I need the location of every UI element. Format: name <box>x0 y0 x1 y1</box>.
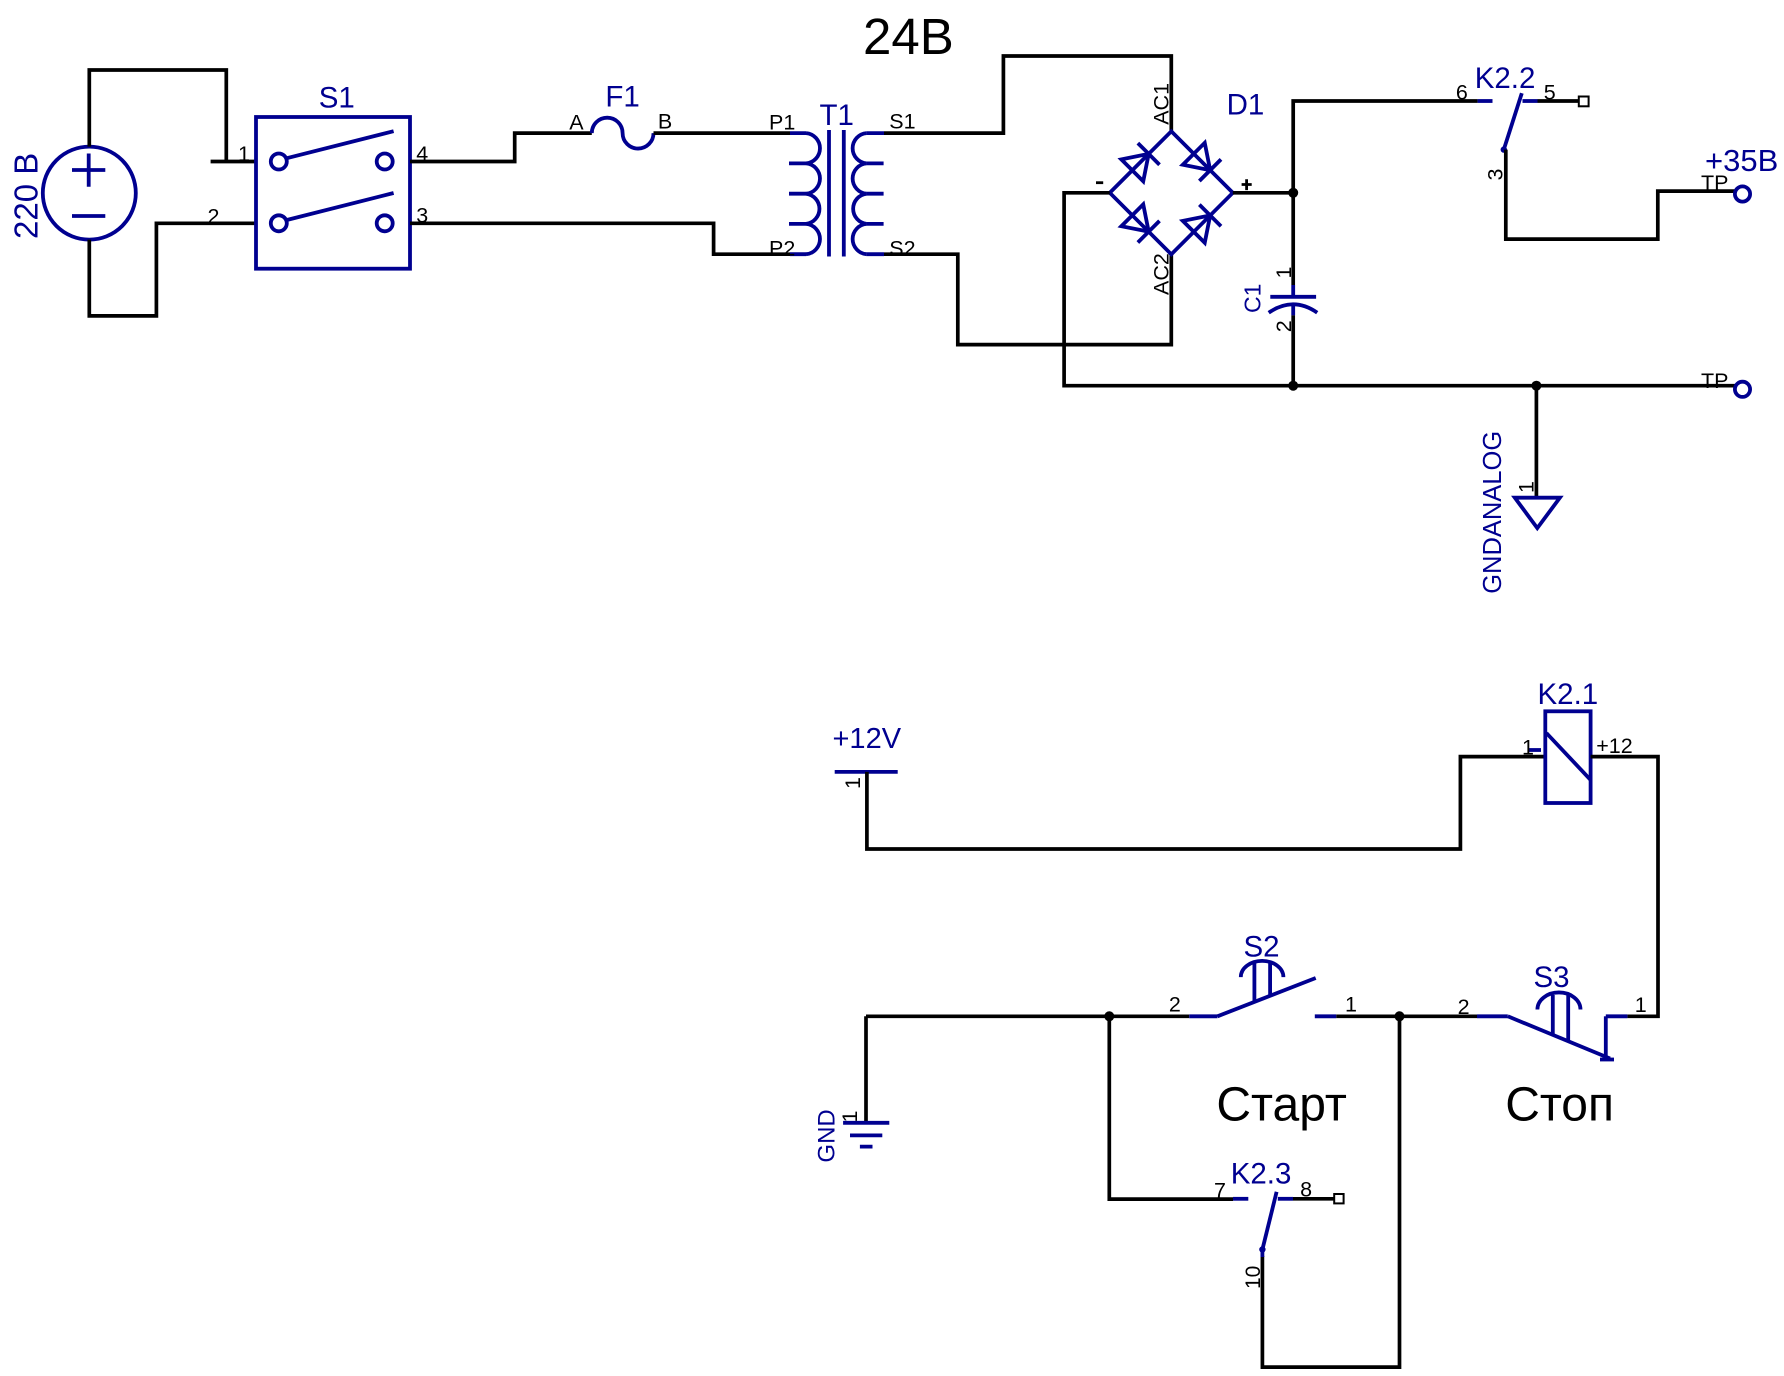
svg-text:S2: S2 <box>1243 931 1279 964</box>
wire C1 node up to K2.2 pin 6 <box>1293 101 1477 193</box>
bottom rail to TP <box>1293 384 1735 388</box>
svg-text:Стоп: Стоп <box>1505 1078 1614 1131</box>
diode D1d bottom-right <box>1183 205 1221 243</box>
wire GND junction down to K2.3 pin 7 <box>1109 1016 1233 1199</box>
svg-text:1: 1 <box>838 1111 862 1123</box>
svg-text:2: 2 <box>1272 320 1296 332</box>
svg-text:TP: TP <box>1701 369 1728 393</box>
svg-text:8: 8 <box>1300 1178 1312 1202</box>
svg-text:2: 2 <box>208 205 220 229</box>
svg-text:D1: D1 <box>1227 89 1265 122</box>
svg-text:+12V: +12V <box>833 723 902 755</box>
wire S2 pin1 to junction to S3 pin2 <box>1336 1014 1477 1018</box>
svg-text:K2.2: K2.2 <box>1475 62 1536 95</box>
junction node start/stop <box>1395 1011 1405 1021</box>
svg-text:1: 1 <box>238 142 250 166</box>
pushbutton S2 <box>1169 931 1357 1017</box>
svg-text:S3: S3 <box>1533 961 1569 994</box>
svg-text:7: 7 <box>1214 1179 1226 1203</box>
wire junction down to K2.3 pin 10 loop <box>1262 1016 1399 1367</box>
svg-text:T1: T1 <box>819 99 853 132</box>
diode D1b top-right <box>1183 143 1221 181</box>
svg-text:B: B <box>658 109 672 133</box>
diode D1c bottom-left <box>1121 204 1159 242</box>
svg-text:2: 2 <box>1169 992 1181 1016</box>
bridge rectifier D1 <box>1096 83 1264 295</box>
svg-text:P1: P1 <box>769 110 795 134</box>
junction node + <box>1288 188 1298 198</box>
wire T1 S2 to bridge AC2 <box>884 254 1171 344</box>
wire +12V to K2.1 pin 1 <box>867 757 1545 849</box>
svg-text:1: 1 <box>1635 993 1647 1017</box>
wire S1 pin 4 to fuse F1 <box>410 133 592 161</box>
svg-text:24В: 24В <box>863 8 954 65</box>
transformer T1 <box>769 99 916 260</box>
wire bridge - to bottom rail <box>1064 193 1293 386</box>
svg-text:S2: S2 <box>889 236 915 260</box>
svg-text:1: 1 <box>1522 735 1534 759</box>
wire K2.1 +12 down to S3 pin 1 <box>1591 757 1658 1017</box>
capacitor C1 <box>1240 193 1318 386</box>
relay contact K2.2 <box>1456 62 1589 181</box>
svg-text:1: 1 <box>841 777 865 789</box>
svg-text:220 В: 220 В <box>8 153 45 239</box>
switch S1 <box>208 82 429 269</box>
fuse F1 <box>569 81 672 149</box>
junction node K2.3 branch <box>1104 1011 1114 1021</box>
svg-text:K2.1: K2.1 <box>1538 678 1599 711</box>
relay coil K2.1 <box>1522 678 1633 803</box>
svg-text:GNDANALOG: GNDANALOG <box>1479 431 1507 594</box>
wire fuse to T1 P1 <box>654 131 791 135</box>
svg-text:1: 1 <box>1514 481 1538 493</box>
svg-text:AC2: AC2 <box>1150 253 1174 295</box>
wire source top to S1 pin 1 <box>89 70 256 162</box>
svg-text:+12: +12 <box>1596 734 1632 758</box>
wire T1 S1 to bridge AC1 <box>884 56 1171 133</box>
svg-text:C1: C1 <box>1240 284 1266 313</box>
diode D1a top-left <box>1121 143 1159 181</box>
svg-text:5: 5 <box>1544 81 1556 105</box>
wire bridge + to C1 node <box>1233 191 1293 195</box>
wire S1 pin 3 to T1 P2 <box>410 223 790 254</box>
voltage source V 220 В <box>8 147 136 240</box>
wire K2.2 pin 3 to +35В test point <box>1506 150 1736 240</box>
svg-text:K2.3: K2.3 <box>1231 1158 1292 1191</box>
svg-text:10: 10 <box>1242 1266 1265 1289</box>
svg-text:1: 1 <box>1345 993 1357 1017</box>
junction node bottom <box>1288 381 1298 391</box>
svg-text:1: 1 <box>1272 267 1296 279</box>
wire source bottom to S1 pin 2 <box>89 223 256 316</box>
junction node gnd <box>1531 381 1541 391</box>
svg-text:F1: F1 <box>605 81 639 114</box>
ground GNDANALOG <box>1479 386 1560 594</box>
svg-text:GND: GND <box>814 1109 841 1162</box>
relay contact K2.3 <box>1214 1158 1344 1289</box>
svg-text:2: 2 <box>1458 995 1470 1019</box>
svg-text:A: A <box>569 110 584 134</box>
svg-text:S1: S1 <box>889 109 915 133</box>
power +12V <box>833 723 902 789</box>
svg-text:AC1: AC1 <box>1150 83 1174 125</box>
test point TP +35В <box>1701 143 1778 202</box>
svg-text:+35В: +35В <box>1705 143 1778 178</box>
test point TP bottom <box>1701 369 1750 397</box>
pushbutton S3 <box>1458 961 1647 1060</box>
wire GND rail to S2 <box>866 1014 1189 1018</box>
svg-text:6: 6 <box>1456 81 1468 105</box>
svg-text:3: 3 <box>1484 169 1508 181</box>
svg-text:Старт: Старт <box>1216 1078 1346 1131</box>
svg-text:S1: S1 <box>319 82 355 115</box>
ground GND <box>814 1016 890 1162</box>
svg-text:P2: P2 <box>769 236 795 260</box>
